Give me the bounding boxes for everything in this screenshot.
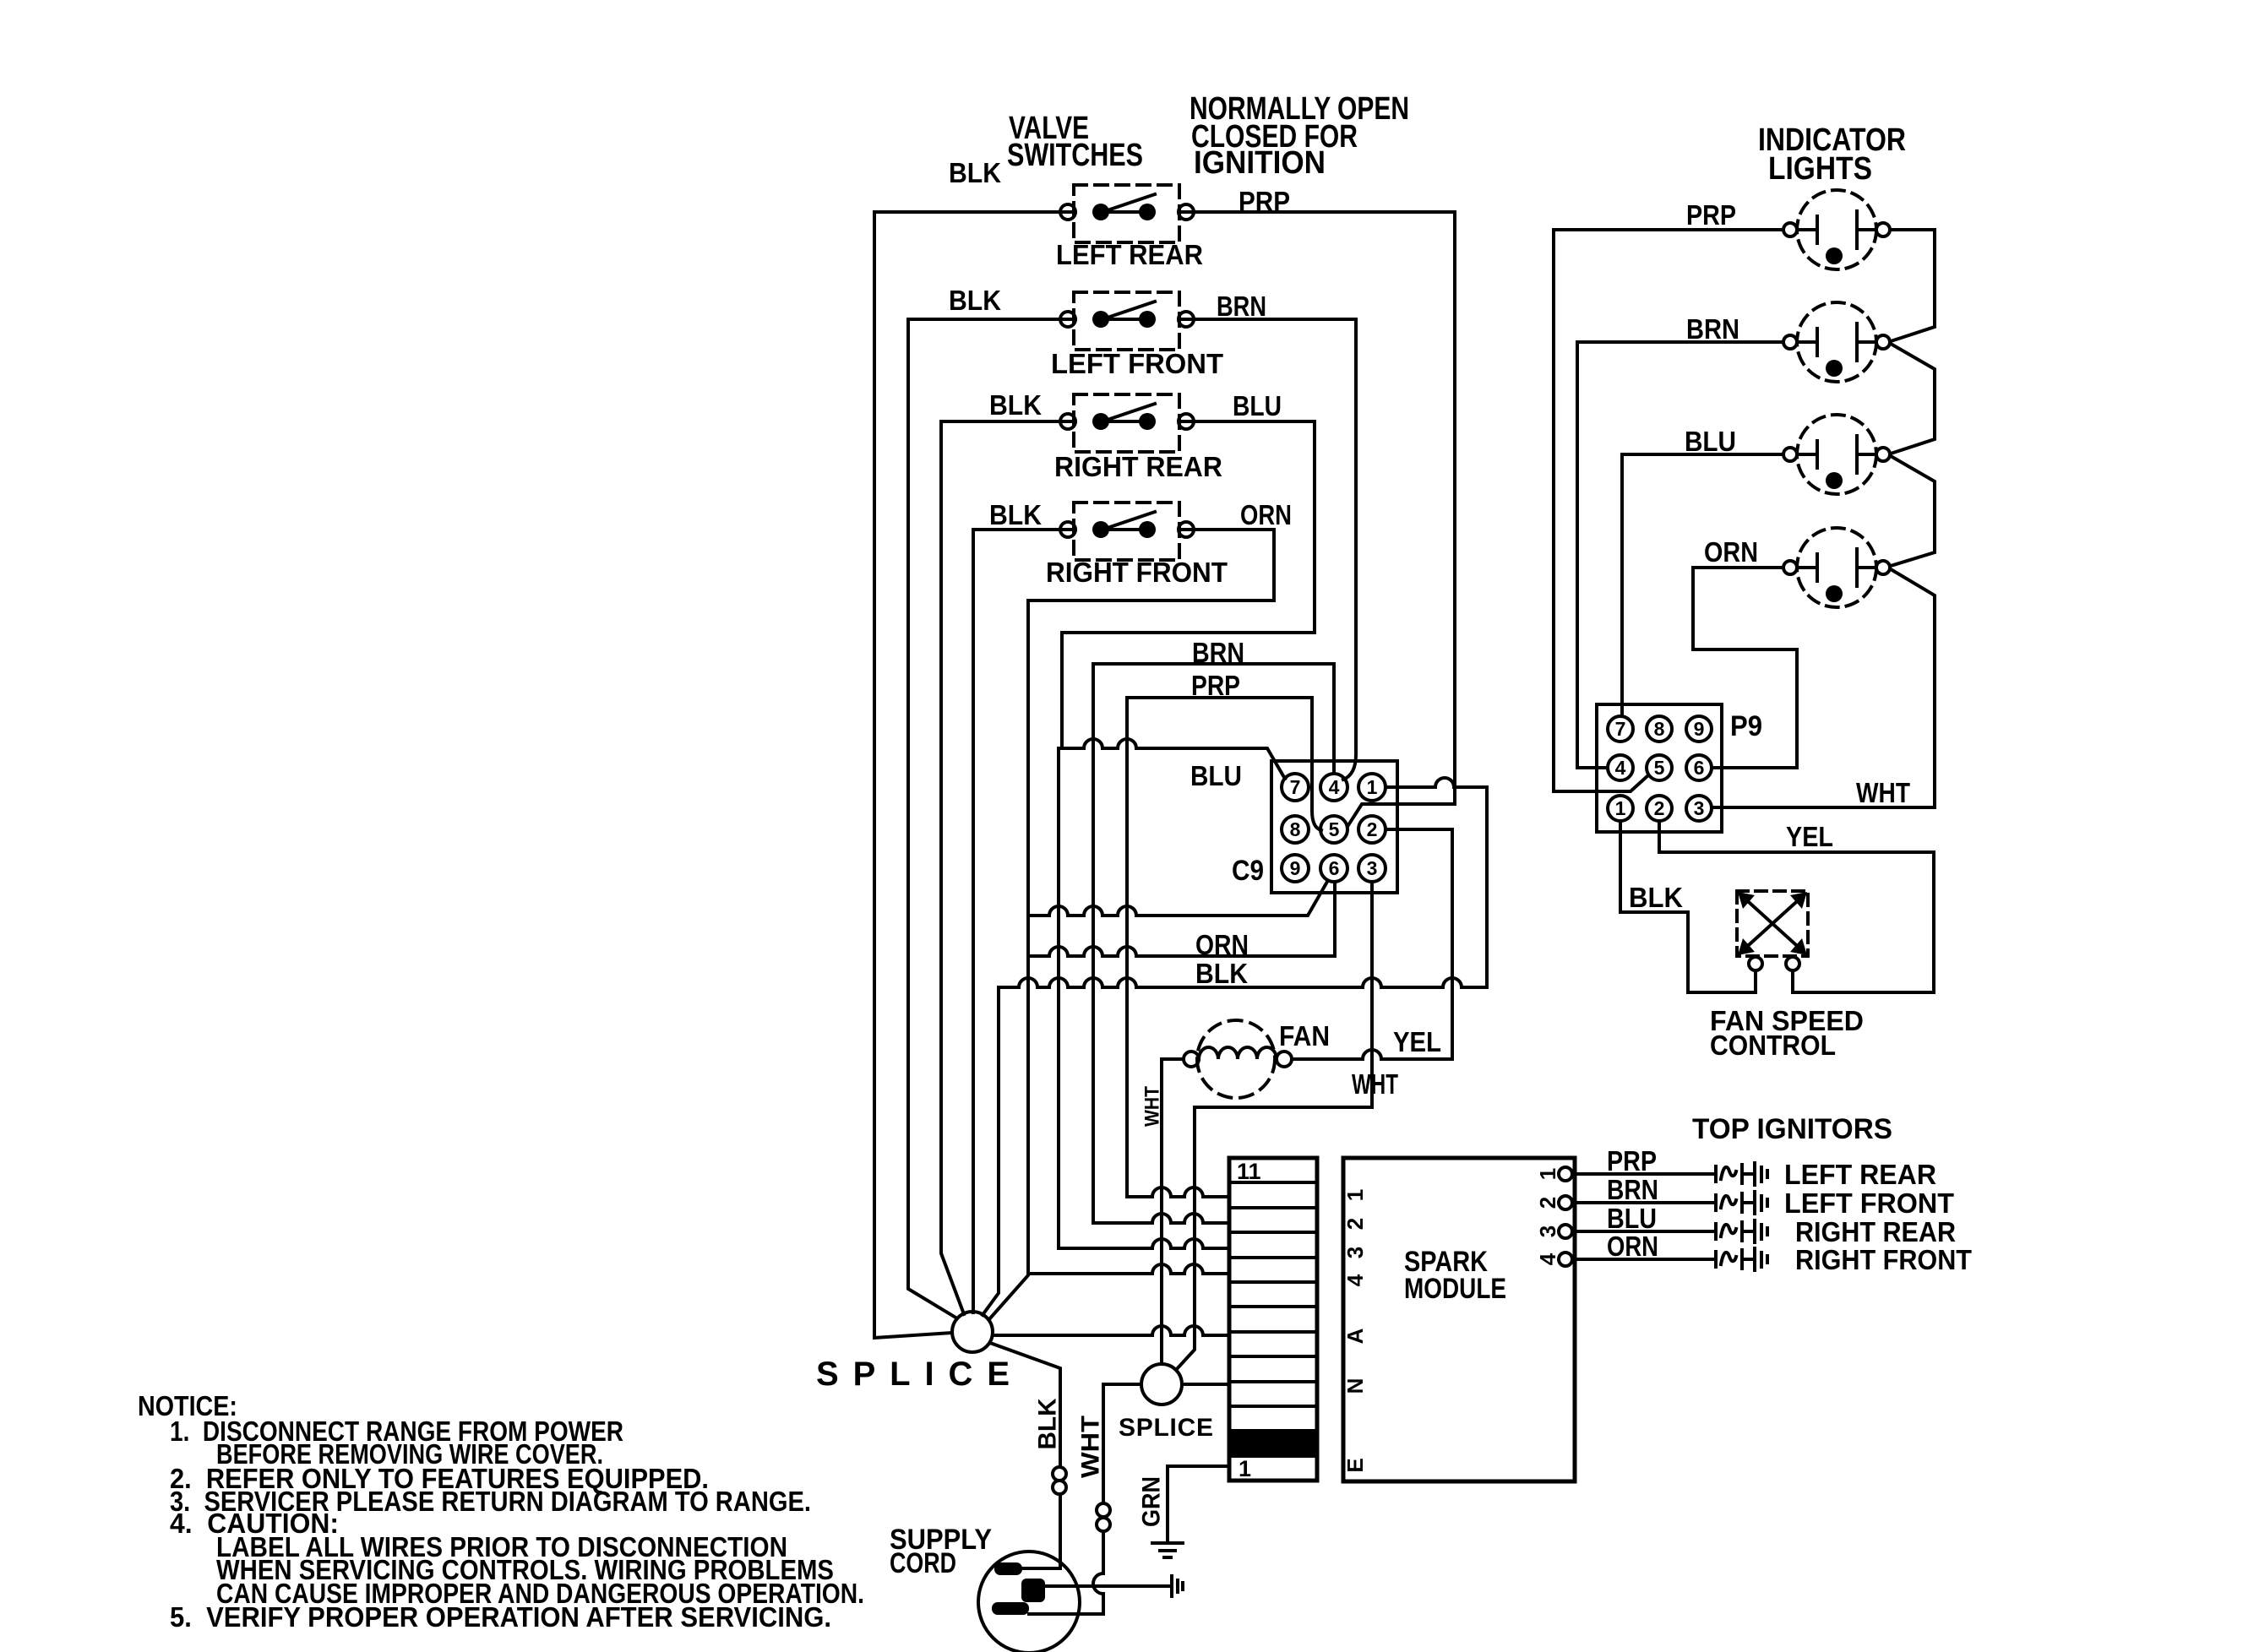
svg-text:CONTROL: CONTROL: [1710, 1030, 1836, 1061]
svg-text:WHT: WHT: [1352, 1068, 1398, 1100]
svg-text:SWITCHES: SWITCHES: [1007, 138, 1143, 173]
svg-text:1: 1: [1535, 1168, 1560, 1180]
svg-text:5: 5: [1654, 757, 1665, 779]
svg-text:WHT: WHT: [1077, 1416, 1105, 1478]
svg-text:8: 8: [1654, 718, 1665, 740]
svg-text:YEL: YEL: [1786, 821, 1833, 852]
svg-text:2: 2: [1367, 818, 1378, 840]
svg-text:BLU: BLU: [1607, 1203, 1657, 1234]
svg-text:4: 4: [1329, 776, 1340, 798]
svg-text:ORN: ORN: [1704, 536, 1758, 568]
svg-text:FAN: FAN: [1279, 1020, 1330, 1052]
svg-text:BLU: BLU: [1190, 760, 1242, 791]
svg-text:PRP: PRP: [1239, 186, 1290, 217]
svg-text:BLU: BLU: [1685, 426, 1736, 457]
svg-text:BLK: BLK: [1034, 1398, 1062, 1449]
svg-text:BRN: BRN: [1607, 1174, 1658, 1205]
svg-text:1: 1: [1342, 1189, 1368, 1201]
svg-text:MODULE: MODULE: [1404, 1273, 1506, 1305]
svg-text:BRN: BRN: [1686, 313, 1739, 345]
svg-text:WHT: WHT: [1856, 777, 1910, 808]
svg-text:7: 7: [1290, 776, 1301, 798]
svg-text:5. VERIFY PROPER OPERATION AF: 5. VERIFY PROPER OPERATION AFTER SERVICI…: [170, 1601, 831, 1633]
svg-text:2: 2: [1342, 1218, 1368, 1230]
svg-text:6: 6: [1329, 857, 1340, 879]
svg-text:E: E: [1342, 1458, 1368, 1472]
svg-text:5: 5: [1329, 818, 1340, 840]
svg-text:BLK: BLK: [989, 499, 1042, 530]
svg-text:RIGHT REAR: RIGHT REAR: [1795, 1216, 1956, 1247]
svg-text:P9: P9: [1730, 710, 1762, 742]
svg-text:WHT: WHT: [1141, 1086, 1164, 1127]
svg-text:RIGHT FRONT: RIGHT FRONT: [1046, 557, 1228, 588]
svg-text:BLK: BLK: [989, 389, 1042, 421]
svg-text:PRP: PRP: [1686, 199, 1736, 231]
svg-text:IGNITION: IGNITION: [1194, 145, 1326, 181]
svg-text:BLK: BLK: [949, 285, 1001, 316]
svg-text:9: 9: [1290, 857, 1301, 879]
svg-text:7: 7: [1615, 718, 1626, 740]
svg-text:ORN: ORN: [1607, 1231, 1658, 1262]
svg-text:BLK: BLK: [949, 157, 1001, 188]
svg-text:2: 2: [1535, 1197, 1560, 1209]
svg-text:GRN: GRN: [1138, 1476, 1166, 1527]
svg-text:LEFT FRONT: LEFT FRONT: [1051, 348, 1223, 379]
svg-text:LIGHTS: LIGHTS: [1768, 151, 1872, 187]
svg-text:A: A: [1342, 1328, 1368, 1344]
svg-text:LEFT FRONT: LEFT FRONT: [1784, 1187, 1954, 1219]
svg-text:SPLICE: SPLICE: [1119, 1414, 1213, 1442]
svg-text:2: 2: [1654, 797, 1665, 819]
svg-text:BLK: BLK: [1195, 958, 1248, 989]
svg-text:1: 1: [1239, 1456, 1251, 1481]
svg-text:3: 3: [1535, 1225, 1560, 1237]
svg-text:BRN: BRN: [1192, 637, 1244, 668]
svg-text:C9: C9: [1232, 855, 1264, 887]
svg-text:BRN: BRN: [1217, 291, 1266, 322]
svg-text:ORN: ORN: [1240, 499, 1292, 530]
svg-text:8: 8: [1290, 818, 1301, 840]
svg-text:BLK: BLK: [1629, 882, 1683, 913]
svg-text:PRP: PRP: [1607, 1145, 1657, 1177]
svg-text:9: 9: [1694, 718, 1705, 740]
svg-text:4: 4: [1615, 757, 1626, 779]
svg-text:4: 4: [1535, 1253, 1560, 1265]
svg-text:CORD: CORD: [890, 1547, 956, 1579]
svg-text:N: N: [1342, 1378, 1368, 1394]
svg-text:LEFT REAR: LEFT REAR: [1056, 239, 1203, 270]
svg-text:1: 1: [1615, 797, 1626, 819]
svg-text:TOP IGNITORS: TOP IGNITORS: [1692, 1113, 1892, 1145]
svg-text:LEFT REAR: LEFT REAR: [1784, 1159, 1936, 1190]
svg-text:1: 1: [1367, 776, 1378, 798]
svg-text:YEL: YEL: [1393, 1026, 1441, 1057]
svg-text:BLU: BLU: [1233, 390, 1282, 421]
svg-text:RIGHT FRONT: RIGHT FRONT: [1795, 1244, 1972, 1275]
svg-text:3: 3: [1342, 1247, 1368, 1258]
svg-text:ORN: ORN: [1195, 929, 1249, 960]
svg-text:3: 3: [1694, 797, 1705, 819]
svg-text:6: 6: [1694, 757, 1705, 779]
svg-text:3: 3: [1367, 857, 1378, 879]
svg-text:4: 4: [1342, 1274, 1368, 1286]
svg-text:PRP: PRP: [1191, 670, 1240, 701]
svg-text:11: 11: [1237, 1159, 1261, 1184]
svg-text:RIGHT REAR: RIGHT REAR: [1054, 451, 1222, 482]
